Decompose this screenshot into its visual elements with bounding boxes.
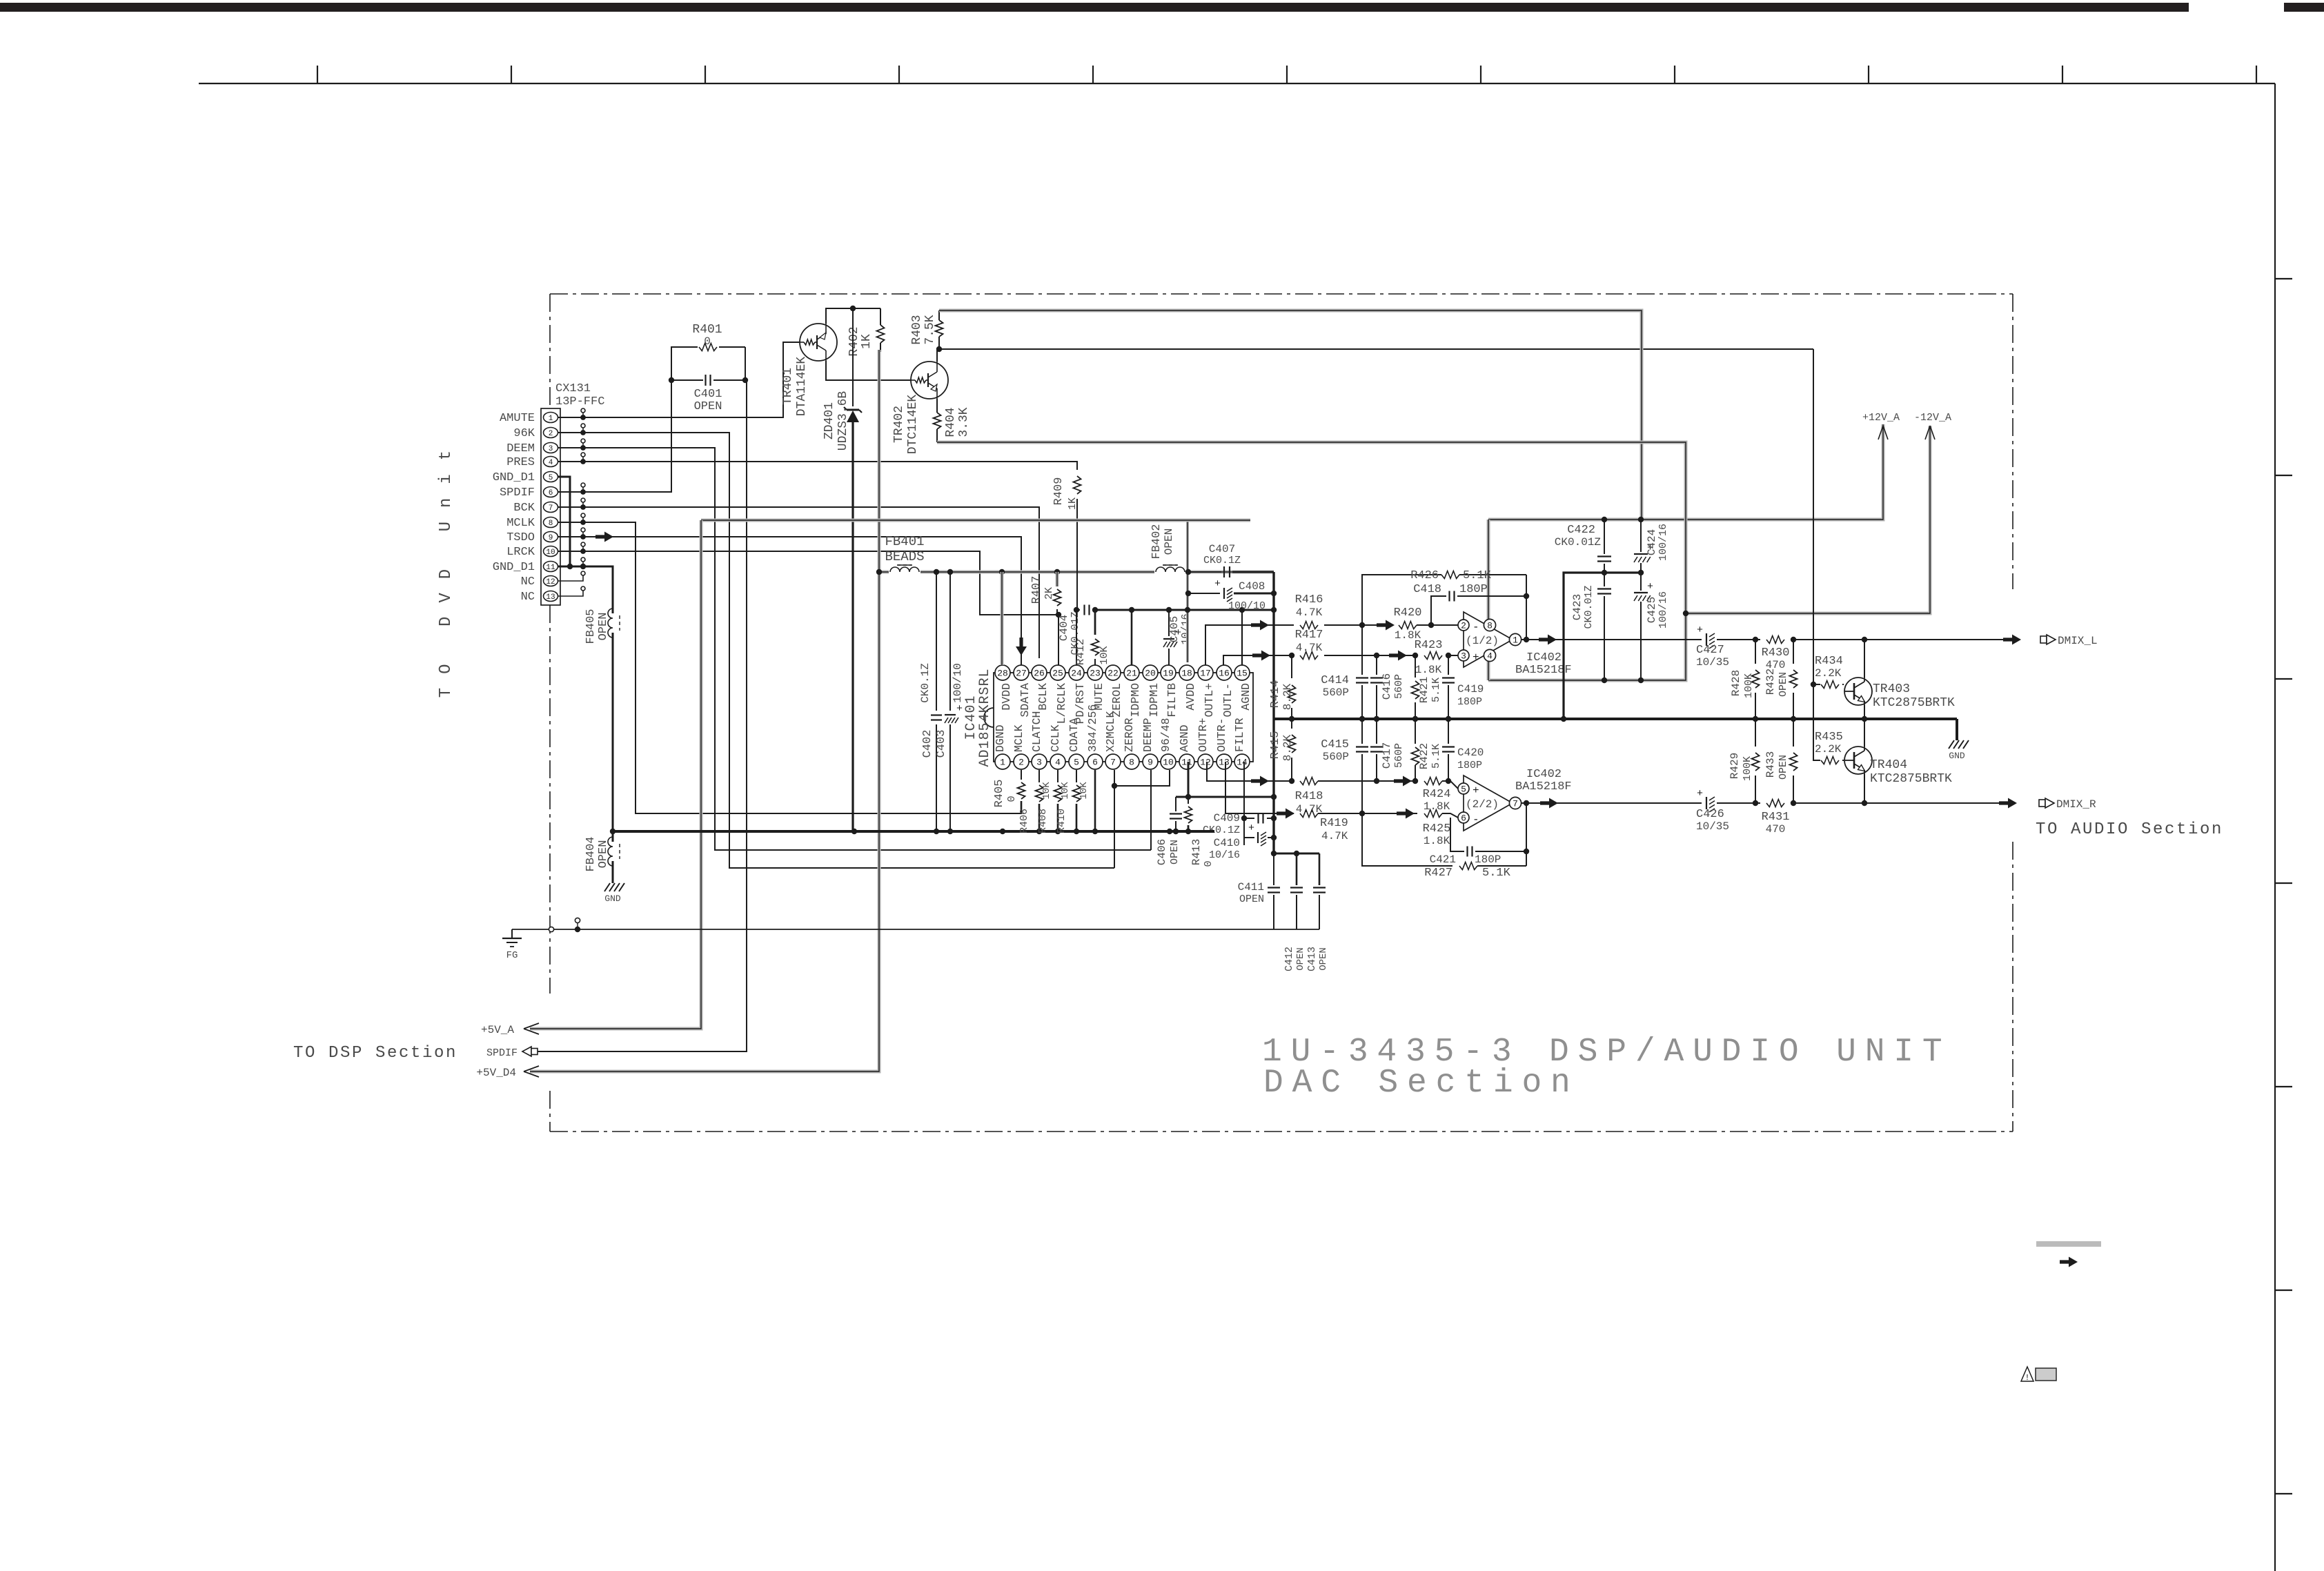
svg-text:14: 14 xyxy=(1237,758,1248,768)
resistor R435 2.2K xyxy=(1821,757,1839,764)
svg-text:1.8K: 1.8K xyxy=(1415,664,1442,676)
IC401 pin 17 OUTL+ xyxy=(1198,665,1213,680)
svg-text:6: 6 xyxy=(1461,813,1466,824)
svg-text:4.7K: 4.7K xyxy=(1296,606,1323,619)
svg-text:10: 10 xyxy=(1163,758,1174,768)
AGND vertical rail xyxy=(1272,572,1274,853)
svg-text:OUTR+: OUTR+ xyxy=(1197,718,1210,752)
wire PRES to R409 xyxy=(583,462,1077,470)
test point pin 13 xyxy=(558,591,583,596)
svg-text:OPEN: OPEN xyxy=(597,613,610,641)
svg-text:OPEN: OPEN xyxy=(1295,947,1306,971)
svg-text:+: + xyxy=(1697,624,1703,636)
svg-text:TR401: TR401 xyxy=(781,368,795,405)
wire BCK to IC pin26 xyxy=(583,507,1039,658)
svg-text:180P: 180P xyxy=(1457,696,1482,708)
svg-text:-12V_A: -12V_A xyxy=(1914,412,1951,424)
svg-text:GND: GND xyxy=(1949,751,1965,761)
svg-text:R434: R434 xyxy=(1815,655,1843,668)
svg-text:!: ! xyxy=(2025,1373,2029,1383)
svg-text:OPEN: OPEN xyxy=(597,840,610,869)
wire cap row link xyxy=(1274,853,1319,855)
svg-text:19: 19 xyxy=(1163,669,1174,679)
svg-text:MCLK: MCLK xyxy=(506,517,535,530)
arrow OUTL+ xyxy=(1251,620,1269,631)
svg-text:DTA114EK: DTA114EK xyxy=(795,357,809,417)
IC401 pin 6 384/256 xyxy=(1087,754,1103,769)
svg-text:10/35: 10/35 xyxy=(1696,656,1729,669)
svg-text:IDPMO: IDPMO xyxy=(1129,683,1142,718)
test point pin 1 xyxy=(558,417,583,418)
resistor R430 470 xyxy=(1766,636,1784,644)
svg-text:27: 27 xyxy=(1016,669,1027,679)
svg-text:C414: C414 xyxy=(1321,674,1349,687)
arrow OUTR+ xyxy=(1251,776,1269,787)
arrow DMIX_L exit xyxy=(2003,635,2021,645)
svg-text:FILTR: FILTR xyxy=(1233,718,1246,752)
svg-text:R422: R422 xyxy=(1418,743,1430,769)
IC401 pin 8 ZEROR xyxy=(1124,754,1139,769)
wire mute drive line xyxy=(939,348,1813,350)
svg-text:C418: C418 xyxy=(1413,583,1441,596)
svg-text:R429: R429 xyxy=(1729,753,1741,779)
wire 384/256 pin6 stub xyxy=(1094,770,1096,831)
transistor TR404 KTC2875BRTK xyxy=(1844,747,1872,774)
capacitor C401 OPEN xyxy=(671,379,703,381)
wire OUTL+ to R416 xyxy=(1205,625,1294,665)
IC401 pin 13 OUTR- xyxy=(1217,754,1232,769)
svg-text:3.3K: 3.3K xyxy=(957,407,971,437)
IC401 pin 26 BCLK xyxy=(1032,665,1047,680)
wire DEEMP pin9 column xyxy=(1150,770,1152,850)
port DMIX_R xyxy=(2039,800,2045,807)
test point pin 4 xyxy=(558,461,583,462)
svg-text:1: 1 xyxy=(549,415,553,423)
svg-text:FG: FG xyxy=(506,950,518,961)
test point pin 2 xyxy=(558,432,583,433)
svg-text:7: 7 xyxy=(1110,758,1116,768)
svg-text:DTC114EK: DTC114EK xyxy=(906,395,920,455)
AGND mid bus xyxy=(1274,718,1957,720)
svg-text:10/16: 10/16 xyxy=(1180,613,1192,644)
resistor R413 0 xyxy=(1188,797,1189,804)
+12V power rail (gray) xyxy=(939,310,1642,520)
svg-text:10/35: 10/35 xyxy=(1696,820,1729,833)
wire MCLK xyxy=(583,522,1021,813)
svg-text:R431: R431 xyxy=(1762,811,1790,824)
IC401 pin 19 FILTB xyxy=(1161,665,1176,680)
wire SPDIF to C401 node xyxy=(583,380,671,492)
svg-text:CK0.1Z: CK0.1Z xyxy=(919,663,932,703)
resistor R421 5.1K xyxy=(1415,655,1416,678)
svg-text:R403: R403 xyxy=(910,315,924,344)
wire AMUTE to TR401 base xyxy=(583,342,800,417)
pin 6 SPDIF xyxy=(544,487,558,497)
svg-text:FB401: FB401 xyxy=(885,534,924,549)
svg-text:21: 21 xyxy=(1126,669,1137,679)
svg-text:X2MCLK: X2MCLK xyxy=(1104,711,1117,752)
resistor R404 3.3K xyxy=(936,399,938,413)
svg-text:R418: R418 xyxy=(1295,790,1323,803)
resistor R408 10K xyxy=(1057,770,1058,782)
svg-text:R412: R412 xyxy=(1074,639,1087,665)
svg-text:180P: 180P xyxy=(1475,853,1501,866)
capacitor C406 OPEN xyxy=(1175,797,1176,811)
arrow to R423 xyxy=(1389,651,1407,661)
svg-text:GND_D1: GND_D1 xyxy=(493,561,535,574)
capacitor C416 560P xyxy=(1376,655,1377,675)
wire FILTB rail xyxy=(1095,609,1274,611)
svg-text:GND_D1: GND_D1 xyxy=(493,471,535,484)
svg-text:560P: 560P xyxy=(1393,743,1405,768)
IC401 pin 4 CCLK xyxy=(1050,754,1065,769)
svg-text:TR403: TR403 xyxy=(1873,682,1910,696)
svg-text:+: + xyxy=(1248,822,1254,834)
svg-text:AMUTE: AMUTE xyxy=(500,412,535,425)
ferrite bead FB401 BEADS xyxy=(889,562,920,580)
svg-text:L/RCLK: L/RCLK xyxy=(1055,683,1068,724)
resistor R433 OPEN xyxy=(1793,719,1794,747)
arrow OUTL- xyxy=(1252,651,1270,661)
capacitor C403 100/10 electrolytic xyxy=(949,572,951,711)
ground GND under FB404 xyxy=(604,883,624,891)
svg-text:C412: C412 xyxy=(1283,947,1295,971)
svg-text:KTC2875BRTK: KTC2875BRTK xyxy=(1870,772,1952,786)
IC401 pin 21 IDPMO xyxy=(1124,665,1139,680)
svg-text:13: 13 xyxy=(546,593,555,602)
capacitor C415 560P xyxy=(1361,719,1363,744)
wire FILTR pin14 column xyxy=(1243,762,1245,845)
IC401 pin 5 CDATA xyxy=(1069,754,1084,769)
wire FG chassis line xyxy=(512,929,549,930)
feedback capacitor C418 180P xyxy=(1431,596,1446,625)
capacitor C404 CK0.01Z xyxy=(1076,609,1080,611)
svg-text:3: 3 xyxy=(549,445,553,453)
svg-text:R419: R419 xyxy=(1320,817,1348,830)
wire LRCK to R407 bottom xyxy=(583,551,1058,615)
svg-text:-: - xyxy=(1473,621,1479,633)
IC401 pin 24 PD/RST xyxy=(1069,665,1084,680)
svg-text:C425: C425 xyxy=(1646,597,1658,623)
wire AVDD pin18 column xyxy=(1186,520,1189,662)
resistor R424 1.8K xyxy=(1424,778,1442,785)
svg-text:C403: C403 xyxy=(935,730,948,758)
arrow to R424 xyxy=(1394,776,1412,787)
svg-text:1K: 1K xyxy=(860,334,874,349)
zener diode ZD401 UDZS3.6B xyxy=(852,308,854,406)
svg-text:C424: C424 xyxy=(1646,529,1658,555)
wire decoupling mid to AGND xyxy=(1564,573,1641,719)
svg-text:SPDIF: SPDIF xyxy=(500,486,535,500)
test point pin 7 xyxy=(558,506,583,508)
svg-text:10K: 10K xyxy=(1099,646,1110,664)
svg-text:LRCK: LRCK xyxy=(506,546,535,559)
svg-text:BCK: BCK xyxy=(513,502,535,515)
svg-text:TO AUDIO Section: TO AUDIO Section xyxy=(2036,820,2223,839)
transistor TR403 KTC2875BRTK xyxy=(1844,678,1872,705)
test point pin 3 xyxy=(558,447,583,448)
capacitor C408 100/10 electrolytic xyxy=(1188,593,1220,594)
capacitor C405 10/16 electrolytic xyxy=(1168,610,1170,636)
IC401 pin 27 SDATA xyxy=(1014,665,1029,680)
svg-text:CK0.01Z: CK0.01Z xyxy=(1555,536,1602,549)
resistor R429 100K xyxy=(1755,719,1756,747)
svg-text:C426: C426 xyxy=(1696,808,1724,821)
IC401 pin 11 AGND xyxy=(1179,754,1194,769)
resistor R434 2.2K xyxy=(1813,684,1820,685)
svg-text:R414: R414 xyxy=(1269,680,1282,709)
svg-text:(2/2): (2/2) xyxy=(1466,798,1499,811)
svg-text:OUTR-: OUTR- xyxy=(1215,718,1228,752)
svg-text:560P: 560P xyxy=(1323,686,1349,699)
svg-text:R420: R420 xyxy=(1394,606,1422,620)
svg-text:+: + xyxy=(1214,578,1221,590)
-12V power rail (gray) xyxy=(937,442,1686,680)
svg-text:5: 5 xyxy=(1074,758,1079,768)
svg-text:R401: R401 xyxy=(692,323,722,337)
ferrite bead FB402 OPEN xyxy=(1154,563,1186,581)
svg-text:ZD401: ZD401 xyxy=(823,402,836,439)
resistor R412 10K xyxy=(1094,610,1096,635)
IC401 pin 25 L/RCLK xyxy=(1050,665,1065,680)
resistor R422 5.1K xyxy=(1415,719,1416,744)
op-amp U IC402 (2/2) xyxy=(1464,775,1513,831)
svg-text:C427: C427 xyxy=(1696,644,1724,657)
transistor TR401 DTA114EK xyxy=(800,324,837,361)
svg-text:7: 7 xyxy=(549,504,553,513)
pin 1 AMUTE xyxy=(544,413,558,423)
IC401 pin 3 CLATCH xyxy=(1032,754,1047,769)
resistor R423 1.8K xyxy=(1424,652,1442,660)
transistor TR402 DTC114EK xyxy=(911,362,948,399)
resistor R414 8.2K xyxy=(1291,655,1292,678)
ferrite bead FB404 xyxy=(612,831,614,842)
svg-text:C410: C410 xyxy=(1214,837,1240,849)
svg-text:OUTL+: OUTL+ xyxy=(1203,683,1216,718)
svg-text:TO DSP Section: TO DSP Section xyxy=(293,1044,457,1063)
svg-text:R402: R402 xyxy=(847,326,861,356)
svg-text:DVDD: DVDD xyxy=(1000,683,1013,711)
capacitor C419 180P xyxy=(1448,655,1449,675)
svg-text:C417: C417 xyxy=(1381,742,1393,769)
capacitor C413 OPEN xyxy=(1319,853,1321,885)
svg-text:9: 9 xyxy=(1148,758,1153,768)
resistor R405 0 xyxy=(1021,770,1022,780)
svg-text:100K: 100K xyxy=(1742,756,1753,781)
arrow to R425 xyxy=(1397,809,1415,819)
svg-text:20: 20 xyxy=(1145,669,1156,679)
wire AGND pin11 link xyxy=(1188,762,1190,797)
svg-text:0: 0 xyxy=(1203,860,1214,867)
wire OUTL- to R417 xyxy=(1223,655,1294,665)
svg-text:C416: C416 xyxy=(1381,673,1393,700)
svg-text:9: 9 xyxy=(549,534,553,542)
svg-text:1K: 1K xyxy=(1067,497,1079,510)
svg-text:C404: C404 xyxy=(1058,615,1070,641)
capacitor C402 CK0.1Z xyxy=(936,572,937,711)
svg-text:R408: R408 xyxy=(1037,809,1049,833)
svg-text:180P: 180P xyxy=(1459,583,1488,596)
arrow to R420 xyxy=(1377,620,1395,631)
+5V_A rail (gray) xyxy=(701,519,1250,522)
svg-text:GND: GND xyxy=(604,893,621,904)
svg-text:OPEN: OPEN xyxy=(694,400,722,413)
IC401 pin 15 AGND xyxy=(1234,665,1250,680)
svg-text:96K: 96K xyxy=(513,427,535,440)
svg-text:ZEROR: ZEROR xyxy=(1123,718,1136,752)
svg-text:C411: C411 xyxy=(1238,881,1264,893)
svg-text:2: 2 xyxy=(1461,621,1466,631)
feedback resistor R426 5.1K xyxy=(1362,575,1441,625)
svg-text:TR404: TR404 xyxy=(1870,758,1907,772)
svg-text:470: 470 xyxy=(1766,823,1786,836)
svg-text:R415: R415 xyxy=(1269,731,1282,760)
svg-text:10: 10 xyxy=(546,549,555,557)
pin 5 GND_D1 xyxy=(544,472,558,482)
wire OUTR+ to R418 xyxy=(1207,762,1294,781)
svg-text:8: 8 xyxy=(1129,758,1134,768)
svg-text:100/10: 100/10 xyxy=(1228,600,1266,612)
svg-text:TR402: TR402 xyxy=(892,406,906,443)
svg-text:8: 8 xyxy=(549,520,553,528)
svg-text:CK0.01Z: CK0.01Z xyxy=(1583,585,1595,629)
resistor R431 470 xyxy=(1766,800,1784,807)
svg-text:R433: R433 xyxy=(1764,751,1777,778)
svg-text:R426: R426 xyxy=(1410,569,1439,582)
arrow SDATA into pin27 xyxy=(1016,638,1027,655)
svg-text:R425: R425 xyxy=(1423,822,1451,836)
arrow DMIX_R exit xyxy=(1999,798,2017,809)
svg-text:13: 13 xyxy=(1219,758,1230,768)
resistor R401 0 xyxy=(671,347,698,380)
svg-text:100/16: 100/16 xyxy=(1657,524,1669,561)
svg-text:5.1K: 5.1K xyxy=(1463,569,1492,582)
svg-text:AGND: AGND xyxy=(1239,683,1252,711)
warning triangle xyxy=(2021,1367,2033,1381)
test point pin 9 xyxy=(558,536,583,537)
svg-text:OPEN: OPEN xyxy=(1318,947,1329,971)
wire SPDIF to exit port xyxy=(538,380,747,1051)
wire op-amp supply column xyxy=(1487,520,1490,680)
top ruler line with ticks xyxy=(199,83,2275,84)
svg-text:NC: NC xyxy=(521,591,535,604)
test point pin 10 xyxy=(558,551,583,552)
svg-text:R417: R417 xyxy=(1295,629,1323,642)
svg-text:17: 17 xyxy=(1200,669,1211,679)
svg-text:C415: C415 xyxy=(1321,738,1349,751)
pin 11 GND_D1 xyxy=(544,562,558,572)
svg-text:R430: R430 xyxy=(1762,646,1790,660)
pin 8 MCLK xyxy=(544,517,558,528)
IC401 pin 7 X2MCLK xyxy=(1105,754,1121,769)
svg-text:4: 4 xyxy=(1055,758,1061,768)
svg-text:5.1K: 5.1K xyxy=(1430,678,1442,702)
svg-text:-: - xyxy=(1473,813,1479,826)
svg-text:1.8K: 1.8K xyxy=(1424,835,1450,847)
svg-text:2K: 2K xyxy=(1043,587,1055,600)
svg-text:CDATA: CDATA xyxy=(1067,718,1081,752)
svg-text:13P-FFC: 13P-FFC xyxy=(555,395,604,408)
svg-text:FILTB: FILTB xyxy=(1165,683,1179,718)
svg-text:C401: C401 xyxy=(694,388,722,401)
capacitor C426 10/35 electrolytic xyxy=(1706,797,1707,809)
svg-text:DEEM: DEEM xyxy=(506,442,535,455)
svg-text:3: 3 xyxy=(1036,758,1042,768)
wire TR401 collector to TR402 base xyxy=(826,361,911,380)
svg-text:R428: R428 xyxy=(1730,670,1742,696)
svg-text:560P: 560P xyxy=(1393,674,1405,699)
svg-text:R409: R409 xyxy=(1052,477,1065,506)
capacitor C417 560P xyxy=(1376,719,1377,744)
test point pin 6 xyxy=(558,491,583,493)
svg-text:OPEN: OPEN xyxy=(1778,672,1789,697)
capacitor C422 CK0.01Z xyxy=(1604,520,1605,554)
svg-text:+: + xyxy=(1473,651,1479,664)
wire DMIX_L to port xyxy=(1791,639,2005,640)
svg-text:CK0.1Z: CK0.1Z xyxy=(1203,555,1241,566)
IC U IC401 AD1854KRSRL xyxy=(994,673,1253,762)
op-amp U IC402 (1/2) xyxy=(1464,612,1513,667)
svg-text:16: 16 xyxy=(1219,669,1230,679)
svg-text:100/16: 100/16 xyxy=(1657,591,1669,629)
pin 4 PRES xyxy=(544,457,558,467)
svg-text:12: 12 xyxy=(1200,758,1211,768)
svg-text:180P: 180P xyxy=(1457,760,1482,771)
pin 3 DEEM xyxy=(544,443,558,453)
svg-text:R404: R404 xyxy=(944,407,958,437)
wire PD/RST pin24 column xyxy=(1076,610,1077,665)
svg-text:CCLK: CCLK xyxy=(1049,724,1062,752)
svg-text:OPEN: OPEN xyxy=(1239,893,1264,905)
top black bar xyxy=(0,3,2189,12)
svg-text:DEEMP: DEEMP xyxy=(1141,718,1154,752)
svg-text:+: + xyxy=(1647,581,1653,593)
pin 13 NC xyxy=(544,591,558,602)
wire to opamp2 + xyxy=(1318,780,1417,782)
svg-text:C419: C419 xyxy=(1457,683,1484,695)
svg-text:R421: R421 xyxy=(1418,677,1430,703)
svg-text:KTC2875BRTK: KTC2875BRTK xyxy=(1873,696,1955,710)
resistor R420 1.8K xyxy=(1399,622,1417,629)
capacitor C420 180P xyxy=(1448,719,1449,744)
svg-text:C413: C413 xyxy=(1306,947,1318,971)
svg-text:UDZS3.6B: UDZS3.6B xyxy=(836,391,850,451)
svg-text:OPEN: OPEN xyxy=(1778,755,1789,780)
svg-text:6: 6 xyxy=(549,489,553,497)
svg-text:TSDO: TSDO xyxy=(506,531,535,544)
right ruler line with ticks xyxy=(2274,83,2276,1571)
svg-text:BEADS: BEADS xyxy=(885,549,924,564)
resistor R407 2K pullup xyxy=(1056,572,1059,586)
svg-text:+: + xyxy=(1697,788,1703,800)
wire pin7 to pin10 96/48 xyxy=(1114,770,1170,786)
capacitor C412 OPEN xyxy=(1296,853,1298,885)
wire X2MCLK pin7 column xyxy=(1114,770,1115,868)
svg-text:0: 0 xyxy=(1006,796,1018,802)
capacitor C407 CK0.1Z xyxy=(1186,571,1221,573)
svg-text:R432: R432 xyxy=(1764,669,1777,695)
svg-text:R413: R413 xyxy=(1190,839,1203,865)
IC401 pin 10 96/48 xyxy=(1161,754,1176,769)
pin 9 TSDO xyxy=(544,532,558,542)
ground FG xyxy=(511,929,513,938)
port DMIX_L xyxy=(2040,636,2047,643)
svg-text:26: 26 xyxy=(1034,669,1045,679)
wire to opamp2 - xyxy=(1318,813,1417,814)
svg-text:25: 25 xyxy=(1052,669,1063,679)
svg-text:4: 4 xyxy=(1487,651,1493,662)
svg-text:SPDIF: SPDIF xyxy=(486,1047,518,1059)
